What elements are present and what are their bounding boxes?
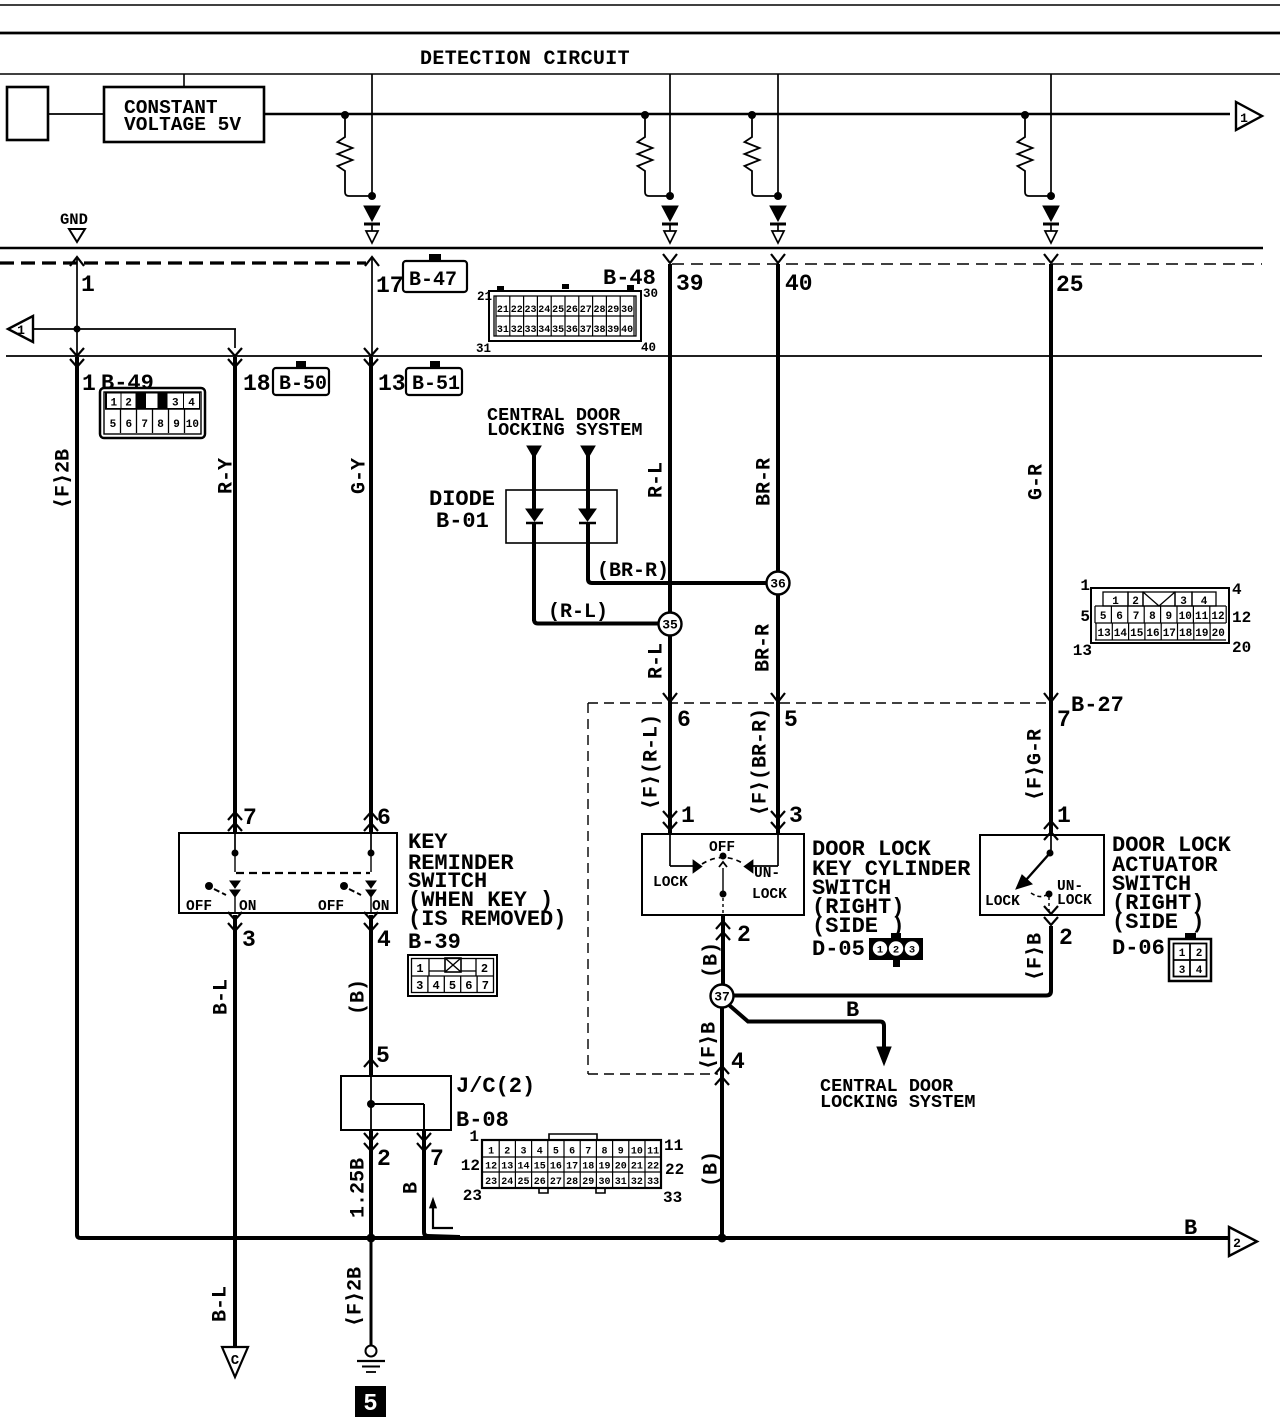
- node pin 6: [663, 693, 691, 733]
- svg-text:33: 33: [647, 1177, 659, 1188]
- svg-text:36: 36: [566, 325, 578, 336]
- connector B-08 pin table: [461, 1128, 684, 1207]
- svg-text:21: 21: [497, 305, 509, 316]
- svg-text:B-27: B-27: [1071, 693, 1124, 718]
- wire pull-up column 2: [666, 74, 674, 200]
- svg-text:31: 31: [497, 325, 509, 336]
- svg-text:20: 20: [615, 1162, 627, 1173]
- svg-text:B-L: B-L: [210, 979, 233, 1015]
- svg-text:2: 2: [1233, 1236, 1241, 1251]
- svg-text:LOCK: LOCK: [1057, 893, 1092, 909]
- svg-text:26: 26: [566, 305, 578, 316]
- connector label B-51: [406, 361, 462, 396]
- node pin 3 key cylinder: [771, 803, 803, 830]
- label (B) key cylinder: [700, 942, 723, 978]
- wire R-L trunk: [668, 264, 672, 834]
- svg-text:5: 5: [784, 707, 798, 733]
- svg-text:2: 2: [893, 945, 899, 957]
- svg-text:D-05: D-05: [812, 937, 865, 962]
- wire bus line 3: [0, 73, 1280, 75]
- svg-text:14: 14: [1114, 628, 1128, 640]
- svg-text:4: 4: [432, 979, 439, 993]
- svg-text:30: 30: [621, 305, 633, 316]
- label DETECTION CIRCUIT: [420, 48, 630, 71]
- svg-text:⟨F⟩B: ⟨F⟩B: [698, 1022, 721, 1070]
- svg-text:37: 37: [580, 325, 592, 336]
- wire G-Y to junction box: [369, 915, 373, 1076]
- wire G-Y: [369, 357, 373, 833]
- svg-text:6: 6: [125, 419, 132, 431]
- svg-text:B: B: [400, 1182, 423, 1194]
- svg-text:3: 3: [520, 1147, 526, 1158]
- resistor R4: [1018, 111, 1052, 196]
- node pin 3 reminder: [228, 912, 256, 953]
- wire key cylinder pin2 down: [721, 915, 725, 985]
- svg-text:VOLTAGE 5V: VOLTAGE 5V: [124, 114, 241, 136]
- connector B-49 pin table: [100, 388, 205, 438]
- svg-text:11: 11: [664, 1137, 683, 1155]
- svg-text:26: 26: [534, 1177, 546, 1188]
- svg-text:⟨F⟩2B: ⟨F⟩2B: [344, 1267, 367, 1327]
- svg-text:33: 33: [524, 325, 536, 336]
- svg-text:21: 21: [631, 1162, 643, 1173]
- svg-text:10: 10: [1179, 611, 1192, 623]
- svg-text:4: 4: [1232, 581, 1242, 599]
- svg-text:R-Y: R-Y: [215, 458, 238, 494]
- svg-text:(R-L): (R-L): [548, 601, 608, 624]
- node pin 4 boundary: [715, 1049, 745, 1085]
- chassis ground symbol: [357, 1346, 385, 1373]
- svg-text:9: 9: [1165, 611, 1172, 623]
- svg-text:4: 4: [537, 1147, 543, 1158]
- svg-text:(B): (B): [700, 1151, 723, 1187]
- svg-text:C: C: [231, 1353, 240, 1369]
- svg-text:16: 16: [550, 1162, 562, 1173]
- svg-text:14: 14: [517, 1162, 529, 1173]
- svg-text:5: 5: [376, 1043, 390, 1069]
- svg-text:J/C(2): J/C(2): [456, 1074, 535, 1099]
- svg-text:15: 15: [534, 1162, 546, 1173]
- wire (B) key cylinder trunk: [720, 985, 724, 1238]
- svg-text:1: 1: [681, 803, 695, 829]
- label DIODE B-01: [429, 487, 495, 534]
- svg-text:BR-R: BR-R: [753, 458, 776, 506]
- wire heavy dashed boundary left: [0, 261, 366, 264]
- svg-text:28: 28: [566, 1177, 578, 1188]
- svg-text:5: 5: [363, 1391, 377, 1418]
- svg-text:17: 17: [376, 273, 404, 299]
- svg-text:22: 22: [665, 1161, 684, 1179]
- label B-48: [603, 266, 656, 291]
- wire from central locking left: [527, 446, 541, 490]
- svg-text:1: 1: [1080, 577, 1090, 595]
- svg-text:6: 6: [1116, 611, 1123, 623]
- svg-text:D-06: D-06: [1112, 936, 1165, 961]
- svg-text:31: 31: [615, 1177, 627, 1188]
- label B output: [400, 1182, 423, 1194]
- svg-text:21: 21: [477, 290, 492, 304]
- node pin 1 actuator: [1044, 803, 1071, 840]
- wire branch to central locking: [729, 1005, 891, 1065]
- svg-text:34: 34: [538, 325, 550, 336]
- label (F)2B: [52, 449, 75, 509]
- svg-text:3: 3: [909, 945, 915, 957]
- wire pull-up column 4: [1047, 74, 1055, 200]
- svg-text:2: 2: [481, 962, 488, 976]
- label (F)G-R: [1024, 729, 1047, 801]
- svg-text:40: 40: [641, 341, 656, 355]
- svg-text:⟨F⟩2B: ⟨F⟩2B: [52, 449, 75, 509]
- diode D2: [662, 206, 678, 243]
- wire B junction-box output: [424, 1130, 460, 1237]
- wire horizontal line 2: [6, 355, 1262, 357]
- node pin 17 (B-47): [365, 257, 404, 356]
- svg-text:B-39: B-39: [408, 930, 461, 955]
- label DOOR LOCK KEY CYLINDER SWITCH: [812, 837, 971, 962]
- node pin 39: [663, 254, 704, 297]
- wire B-L: [233, 915, 237, 1347]
- svg-text:24: 24: [501, 1177, 513, 1188]
- svg-text:3: 3: [172, 398, 179, 410]
- diode assembly box B-01: [506, 490, 617, 543]
- wire pull-up column 3: [774, 74, 782, 200]
- svg-text:38: 38: [593, 325, 605, 336]
- junction box J/C(2): [341, 1076, 451, 1130]
- label R-L lower: [645, 643, 668, 679]
- svg-text:32: 32: [511, 325, 523, 336]
- svg-text:⟨F⟩(BR-R): ⟨F⟩(BR-R): [749, 708, 772, 816]
- label B-L lower: [209, 1286, 232, 1322]
- wire BR-R trunk: [776, 264, 780, 834]
- svg-text:6: 6: [465, 979, 472, 993]
- wire from central locking right: [581, 446, 595, 490]
- svg-text:G-Y: G-Y: [348, 458, 371, 494]
- svg-text:13: 13: [1097, 628, 1111, 640]
- svg-text:BR-R: BR-R: [752, 624, 775, 672]
- svg-text:⟨F⟩B: ⟨F⟩B: [1024, 933, 1047, 981]
- svg-text:LOCK: LOCK: [752, 887, 787, 903]
- label (F)B actuator: [1024, 933, 1047, 981]
- svg-text:2: 2: [1196, 948, 1203, 960]
- resistor R2: [638, 111, 671, 196]
- diode B-01 right element: [579, 458, 596, 580]
- svg-text:28: 28: [593, 305, 605, 316]
- svg-text:8: 8: [601, 1147, 607, 1158]
- label BR-R lower: [752, 624, 775, 672]
- svg-text:1: 1: [110, 398, 117, 410]
- node pin 7 B-27: [1044, 693, 1124, 733]
- node pin 7 reminder: [228, 805, 257, 831]
- svg-text:1: 1: [1240, 111, 1248, 126]
- svg-text:22: 22: [511, 305, 523, 316]
- label pin 13: [378, 371, 406, 397]
- svg-text:37: 37: [714, 990, 730, 1005]
- label (F)2B lower: [344, 1267, 367, 1327]
- connector B-39 pin table: [408, 955, 497, 996]
- svg-text:20: 20: [1212, 628, 1225, 640]
- svg-text:17: 17: [1163, 628, 1176, 640]
- svg-text:40: 40: [621, 325, 633, 336]
- svg-text:B: B: [1184, 1216, 1197, 1241]
- svg-text:35: 35: [662, 618, 678, 633]
- svg-text:LOCKING SYSTEM: LOCKING SYSTEM: [820, 1092, 975, 1113]
- svg-text:25: 25: [517, 1177, 529, 1188]
- svg-text:LOCKING SYSTEM: LOCKING SYSTEM: [487, 420, 642, 441]
- svg-text:UN-: UN-: [754, 866, 780, 882]
- svg-text:6: 6: [569, 1147, 575, 1158]
- wire ECU to regulator: [48, 113, 105, 115]
- splice node 36: [767, 572, 790, 595]
- svg-text:DETECTION CIRCUIT: DETECTION CIRCUIT: [420, 48, 630, 71]
- label R-Y: [215, 458, 238, 494]
- svg-text:16: 16: [1146, 628, 1159, 640]
- diode D4: [1043, 206, 1059, 243]
- off-page arrow 1 right: [1236, 102, 1262, 130]
- svg-text:4: 4: [188, 398, 195, 410]
- svg-text:7: 7: [141, 419, 148, 431]
- svg-text:5: 5: [553, 1147, 559, 1158]
- svg-text:4: 4: [1196, 965, 1203, 977]
- svg-text:12: 12: [461, 1157, 480, 1175]
- svg-text:5: 5: [1080, 608, 1090, 626]
- svg-text:13: 13: [1073, 642, 1092, 660]
- svg-text:2: 2: [377, 1146, 391, 1172]
- page reference box 5: [355, 1386, 386, 1418]
- svg-text:17: 17: [566, 1162, 578, 1173]
- svg-text:3: 3: [242, 927, 256, 953]
- svg-text:10: 10: [631, 1147, 643, 1158]
- svg-text:40: 40: [785, 271, 813, 297]
- wire pull-up column 1: [368, 74, 376, 200]
- label G-Y: [348, 458, 371, 494]
- svg-text:OFF: OFF: [318, 899, 344, 915]
- svg-text:4: 4: [377, 927, 391, 953]
- svg-text:12: 12: [1211, 611, 1224, 623]
- wire to chassis ground: [370, 1238, 373, 1345]
- svg-text:19: 19: [598, 1162, 610, 1173]
- node pin 2 actuator: [1044, 906, 1073, 951]
- wire regulator top stub: [183, 74, 185, 88]
- svg-text:32: 32: [631, 1177, 643, 1188]
- svg-text:9: 9: [173, 419, 180, 431]
- connector label B-47: [403, 254, 467, 292]
- diode D1: [364, 206, 380, 243]
- label G-R upper: [1025, 464, 1048, 500]
- svg-text:36: 36: [770, 577, 786, 592]
- junction dot G-Y/B line: [367, 1234, 376, 1243]
- label (B) lower: [700, 1151, 723, 1187]
- svg-text:(B): (B): [700, 942, 723, 978]
- node pin 7 junction box: [417, 1133, 444, 1172]
- svg-text:6: 6: [377, 805, 391, 831]
- resistor R1: [338, 111, 373, 196]
- wire R-Y: [233, 357, 237, 833]
- svg-text:R-L: R-L: [645, 462, 668, 498]
- label (F)B splice: [698, 1022, 721, 1070]
- node pin 2 key cylinder: [716, 921, 751, 948]
- node pin 40: [771, 254, 813, 297]
- node boundary chevrons x=77: [70, 348, 84, 367]
- svg-text:30: 30: [598, 1177, 610, 1188]
- svg-text:2: 2: [1059, 925, 1073, 951]
- diode B-01 left element: [526, 458, 543, 621]
- svg-text:39: 39: [676, 271, 704, 297]
- wire (R-L) jumper: [534, 601, 658, 624]
- svg-text:(SIDE ): (SIDE ): [812, 914, 904, 939]
- svg-text:LOCK: LOCK: [653, 875, 688, 891]
- svg-text:23: 23: [485, 1177, 497, 1188]
- node pin 5 junction box: [364, 1043, 390, 1069]
- label B wire: [846, 998, 859, 1023]
- svg-text:5: 5: [1100, 611, 1107, 623]
- svg-text:7: 7: [585, 1147, 591, 1158]
- wire (F)B actuator to junction: [733, 926, 1051, 996]
- svg-text:18: 18: [582, 1162, 594, 1173]
- svg-text:B-51: B-51: [412, 373, 460, 396]
- wire 1.25B: [369, 1130, 373, 1238]
- label (B) G-Y column: [347, 979, 370, 1015]
- resistor R3: [745, 111, 779, 196]
- svg-text:B-47: B-47: [409, 269, 457, 292]
- label (F)(BR-R): [749, 708, 772, 816]
- diode D3: [770, 206, 786, 243]
- svg-text:23: 23: [463, 1187, 482, 1205]
- svg-text:G-R: G-R: [1025, 464, 1048, 500]
- svg-text:4: 4: [731, 1049, 745, 1075]
- constant voltage regulator box: [104, 87, 264, 142]
- svg-text:9: 9: [618, 1147, 624, 1158]
- wire horizontal boundary line: [0, 247, 1263, 250]
- svg-text:B-L: B-L: [209, 1286, 232, 1322]
- wire top bus line 2: [0, 32, 1280, 35]
- svg-text:5: 5: [449, 979, 456, 993]
- svg-text:7: 7: [243, 805, 257, 831]
- label 1.25B: [347, 1158, 370, 1218]
- wire continuation arrow symbol: [430, 1198, 454, 1228]
- svg-text:2: 2: [737, 922, 751, 948]
- label J/C(2) B-08: [456, 1074, 535, 1133]
- connector B-48 pin table: [476, 284, 658, 356]
- label (F)(R-L): [640, 714, 663, 810]
- node boundary chevrons x=235: [228, 348, 242, 367]
- svg-text:3: 3: [789, 803, 803, 829]
- switch S1 door lock key cylinder: [642, 834, 804, 915]
- ECU box (partial, left edge): [7, 87, 48, 140]
- svg-text:1: 1: [488, 1147, 494, 1158]
- svg-text:1: 1: [877, 945, 883, 957]
- svg-text:25: 25: [1056, 272, 1084, 298]
- svg-text:30: 30: [643, 287, 658, 301]
- ground GND symbol: [60, 211, 88, 242]
- svg-text:10: 10: [186, 419, 199, 431]
- svg-text:33: 33: [663, 1189, 682, 1207]
- wire top bus line 1: [0, 4, 1280, 6]
- svg-text:7: 7: [1057, 707, 1071, 733]
- wire 5V supply rail: [264, 113, 1230, 116]
- svg-text:7: 7: [482, 979, 489, 993]
- label BR-R upper: [753, 458, 776, 506]
- label pin 18: [243, 371, 271, 397]
- node boundary chevrons x=371: [364, 348, 378, 367]
- off-page arrow 1 left: [8, 316, 236, 348]
- svg-text:1: 1: [17, 323, 25, 338]
- label KEY REMINDER SWITCH: [408, 830, 566, 955]
- svg-text:1: 1: [1057, 803, 1071, 829]
- svg-text:29: 29: [582, 1177, 594, 1188]
- svg-text:B-01: B-01: [436, 509, 489, 534]
- svg-text:27: 27: [550, 1177, 562, 1188]
- svg-text:3: 3: [1179, 965, 1186, 977]
- svg-text:B-08: B-08: [456, 1108, 509, 1133]
- svg-text:18: 18: [243, 371, 271, 397]
- label DOOR LOCK ACTUATOR SWITCH: [1112, 833, 1232, 961]
- node pin 1 key cylinder: [663, 803, 695, 830]
- svg-text:1: 1: [469, 1128, 479, 1146]
- svg-text:13: 13: [378, 371, 406, 397]
- svg-text:1: 1: [82, 371, 96, 397]
- svg-text:1.25B: 1.25B: [347, 1158, 370, 1218]
- label CENTRAL DOOR LOCKING SYSTEM (bottom): [820, 1076, 975, 1113]
- svg-text:35: 35: [552, 325, 564, 336]
- svg-text:22: 22: [647, 1162, 659, 1173]
- svg-text:7: 7: [430, 1146, 444, 1172]
- svg-text:GND: GND: [60, 211, 88, 229]
- svg-text:1: 1: [81, 272, 95, 298]
- svg-text:25: 25: [552, 305, 564, 316]
- node pin 4 reminder: [364, 912, 391, 953]
- svg-text:11: 11: [1195, 611, 1209, 623]
- svg-text:OFF: OFF: [186, 899, 212, 915]
- wire (BR-R) jumper: [588, 560, 766, 583]
- svg-text:15: 15: [1130, 628, 1144, 640]
- svg-text:31: 31: [476, 342, 491, 356]
- svg-text:⟨F⟩G-R: ⟨F⟩G-R: [1024, 729, 1047, 801]
- svg-text:27: 27: [580, 305, 592, 316]
- svg-text:2: 2: [504, 1147, 510, 1158]
- svg-text:8: 8: [1149, 611, 1156, 623]
- svg-text:LOCK: LOCK: [985, 894, 1020, 910]
- splice node 35: [659, 613, 682, 636]
- off-page arrow C: [222, 1347, 248, 1377]
- svg-text:(B): (B): [347, 979, 370, 1015]
- svg-text:12: 12: [1232, 609, 1251, 627]
- connector D-06: [1169, 933, 1211, 981]
- connector label B-50: [273, 361, 329, 396]
- svg-text:12: 12: [485, 1162, 497, 1173]
- svg-text:11: 11: [647, 1147, 659, 1158]
- svg-text:2: 2: [125, 398, 132, 410]
- svg-text:1: 1: [416, 962, 423, 976]
- svg-text:8: 8: [157, 419, 164, 431]
- svg-text:ON: ON: [372, 899, 389, 915]
- svg-text:7: 7: [1133, 611, 1140, 623]
- wire thin dashed boundary right: [672, 263, 1262, 265]
- switch S3 key reminder: [179, 833, 397, 915]
- svg-text:(SIDE ): (SIDE ): [1112, 910, 1204, 935]
- node pin 1 (B-49): [70, 257, 95, 356]
- label pin 1 B-49: [82, 371, 154, 397]
- svg-text:13: 13: [501, 1162, 513, 1173]
- node pin 6 reminder: [364, 805, 391, 831]
- svg-text:1: 1: [1179, 948, 1186, 960]
- svg-text:B: B: [846, 998, 859, 1023]
- label B-L upper: [210, 979, 233, 1015]
- svg-text:23: 23: [524, 305, 536, 316]
- wire G-R trunk: [1049, 264, 1053, 835]
- svg-text:39: 39: [607, 325, 619, 336]
- node pin 2 junction box: [364, 1133, 391, 1172]
- label B bottom: [1184, 1216, 1197, 1241]
